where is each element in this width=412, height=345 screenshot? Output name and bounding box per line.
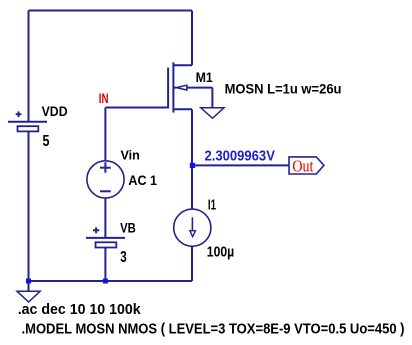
- svg-text:3: 3: [120, 249, 127, 266]
- value 3: [120, 249, 127, 266]
- ground at M1 body: [201, 108, 224, 119]
- wire M1 body to ground: [187, 88, 212, 108]
- voltage source Vin: [87, 161, 124, 198]
- spice directive .ac dec 10 10 100k: [18, 302, 142, 318]
- svg-text:IN: IN: [99, 91, 109, 106]
- svg-text:AC 1: AC 1: [128, 173, 157, 188]
- svg-text:I1: I1: [208, 197, 216, 213]
- svg-text:VDD: VDD: [42, 104, 68, 119]
- svg-text:5: 5: [43, 133, 50, 150]
- label M1: [196, 70, 214, 85]
- wire M1 source down through Out node to I1: [191, 109, 193, 210]
- wire I1 bottom to ground rail: [191, 246, 193, 281]
- node voltage 2.3009963V: [205, 149, 276, 165]
- wire ground stub below left junction: [28, 281, 30, 291]
- value 100µ: [207, 245, 234, 261]
- node IN label: [99, 91, 109, 106]
- wire node IN horizontal gate lead: [105, 107, 168, 109]
- current source I1: [174, 209, 211, 246]
- value 5: [43, 133, 50, 150]
- label Vin: [121, 147, 140, 162]
- wire left vertical from top rail to VDD battery: [28, 11, 30, 122]
- junction at ground rail VB: [103, 279, 108, 284]
- transistor M1: [168, 62, 192, 112]
- wire Out node to Out port: [192, 164, 289, 166]
- svg-text:.ac dec 10 10 100k: .ac dec 10 10 100k: [18, 302, 142, 318]
- wire bottom ground rail: [29, 280, 193, 282]
- label VB: [120, 221, 136, 236]
- svg-text:100µ: 100µ: [207, 245, 234, 261]
- spice directive .MODEL MOSN NMOS: [22, 322, 405, 338]
- wire Vin bottom to VB top: [104, 198, 106, 238]
- label I1: [208, 197, 216, 213]
- junction at ground rail left: [26, 279, 31, 284]
- battery VDD: [8, 111, 47, 131]
- battery VB: [86, 227, 125, 247]
- svg-text:Vin: Vin: [121, 147, 140, 162]
- svg-text:VB: VB: [120, 221, 136, 236]
- svg-text:2.3009963V: 2.3009963V: [205, 149, 276, 165]
- wire VDD battery bottom to ground rail: [28, 132, 30, 282]
- port Out: [289, 156, 324, 175]
- label VDD: [42, 104, 68, 119]
- wire drain from top rail to M1: [191, 11, 193, 66]
- ground at bottom left: [17, 291, 40, 302]
- wire top rail: [29, 10, 193, 12]
- junction at Out node: [190, 163, 195, 168]
- wire VB bottom to ground rail: [104, 247, 106, 281]
- svg-text:M1: M1: [196, 70, 214, 85]
- wire node IN vertical down to Vin: [104, 108, 106, 162]
- svg-text:Out: Out: [292, 156, 313, 175]
- value MOSN L=1u w=26u: [225, 82, 342, 97]
- value AC 1: [128, 173, 157, 188]
- svg-text:MOSN L=1u w=26u: MOSN L=1u w=26u: [225, 82, 342, 97]
- svg-text:.MODEL MOSN NMOS ( LEVEL=3 TOX: .MODEL MOSN NMOS ( LEVEL=3 TOX=8E-9 VTO=…: [22, 322, 405, 338]
